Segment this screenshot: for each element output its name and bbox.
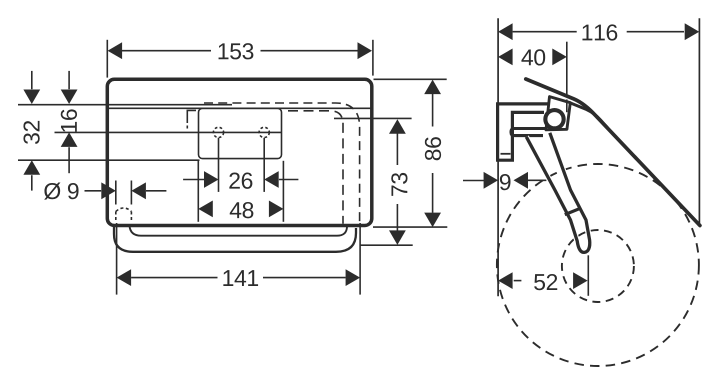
arrowheads dim 26 (204, 171, 219, 188)
hidden outer drum dashed outline (204, 103, 360, 224)
bottom hole hidden slot (116, 208, 132, 212)
dim 141 (116, 223, 118, 295)
arrowheads dim 116 (498, 23, 512, 40)
dim diameter 9 (85, 190, 102, 192)
label Ø 9 (44, 183, 60, 200)
roll core dashed circle (562, 230, 634, 302)
label 52 (534, 274, 545, 290)
label 141 (223, 270, 233, 286)
arrowheads dim 73 (389, 119, 406, 134)
roll arm rung (565, 209, 580, 215)
mounting plate outline (199, 108, 282, 158)
label 86 (425, 137, 441, 160)
label 73 (391, 173, 407, 196)
front view body outline (107, 79, 372, 225)
cover underside edge (570, 103, 607, 128)
wall plate and top arm outline (498, 104, 549, 160)
roll outer dashed circle (497, 164, 699, 366)
dim 73 extension lines (334, 117, 412, 119)
arrowheads dim 141 (117, 269, 132, 286)
dim 16 (68, 71, 70, 89)
dim 86 extension lines (374, 78, 447, 80)
roll bar outer outline (114, 226, 356, 252)
roll arm with hook (526, 133, 589, 253)
side view right extent extension line (698, 18, 700, 224)
dim 40 extension line lower stub (566, 100, 568, 113)
side view wall line (497, 18, 499, 296)
hinge pin ring (543, 108, 565, 130)
arrowheads dim 48 (198, 201, 213, 218)
cover flap (526, 79, 700, 226)
arrowheads dim 40 (498, 49, 512, 66)
bottom hole extension lines (115, 181, 117, 205)
screw hole left (213, 127, 223, 137)
dim 32 (31, 71, 33, 89)
label 48 (230, 202, 242, 218)
mounting plate hidden step (187, 110, 196, 123)
arrowheads dim 9 side (484, 172, 499, 189)
label 16 (61, 109, 77, 131)
roll bar inner outline (130, 226, 348, 236)
label 32 (23, 121, 39, 144)
label 9 (500, 174, 511, 190)
front view cover lower edge line (107, 107, 372, 109)
roll arm pivot bar (511, 129, 548, 136)
roll arm with hook (white casing) (526, 133, 589, 253)
dim 26 (218, 138, 220, 192)
label 40 (521, 49, 533, 65)
label 153 (219, 43, 229, 59)
arrowheads dim 32 (23, 90, 40, 105)
extension line left top (32/16 reference) (18, 104, 232, 106)
hinge clamp plate (546, 97, 570, 130)
dim 153 (106, 40, 108, 78)
label 26 (229, 173, 239, 189)
dim 40 extension line (566, 42, 568, 96)
arrowheads dim 52 (498, 272, 512, 289)
arrowheads dim 153 (108, 42, 123, 59)
extension line screw axis (55, 131, 282, 133)
arrowheads dim 16 (61, 90, 78, 105)
label 116 (582, 25, 592, 41)
dim 9 side (463, 180, 485, 182)
hidden inner drum dashed outline (288, 111, 343, 224)
wall plate foot inner line (501, 153, 511, 155)
screw hole right (259, 127, 269, 137)
dim 48 (197, 161, 199, 222)
dim 116 (513, 31, 577, 33)
arrowheads dim 86 (424, 80, 441, 95)
dim 52 (514, 280, 522, 282)
arrowheads dim diameter 9 (101, 182, 116, 199)
extension line left lower (32 bottom) (18, 159, 200, 161)
